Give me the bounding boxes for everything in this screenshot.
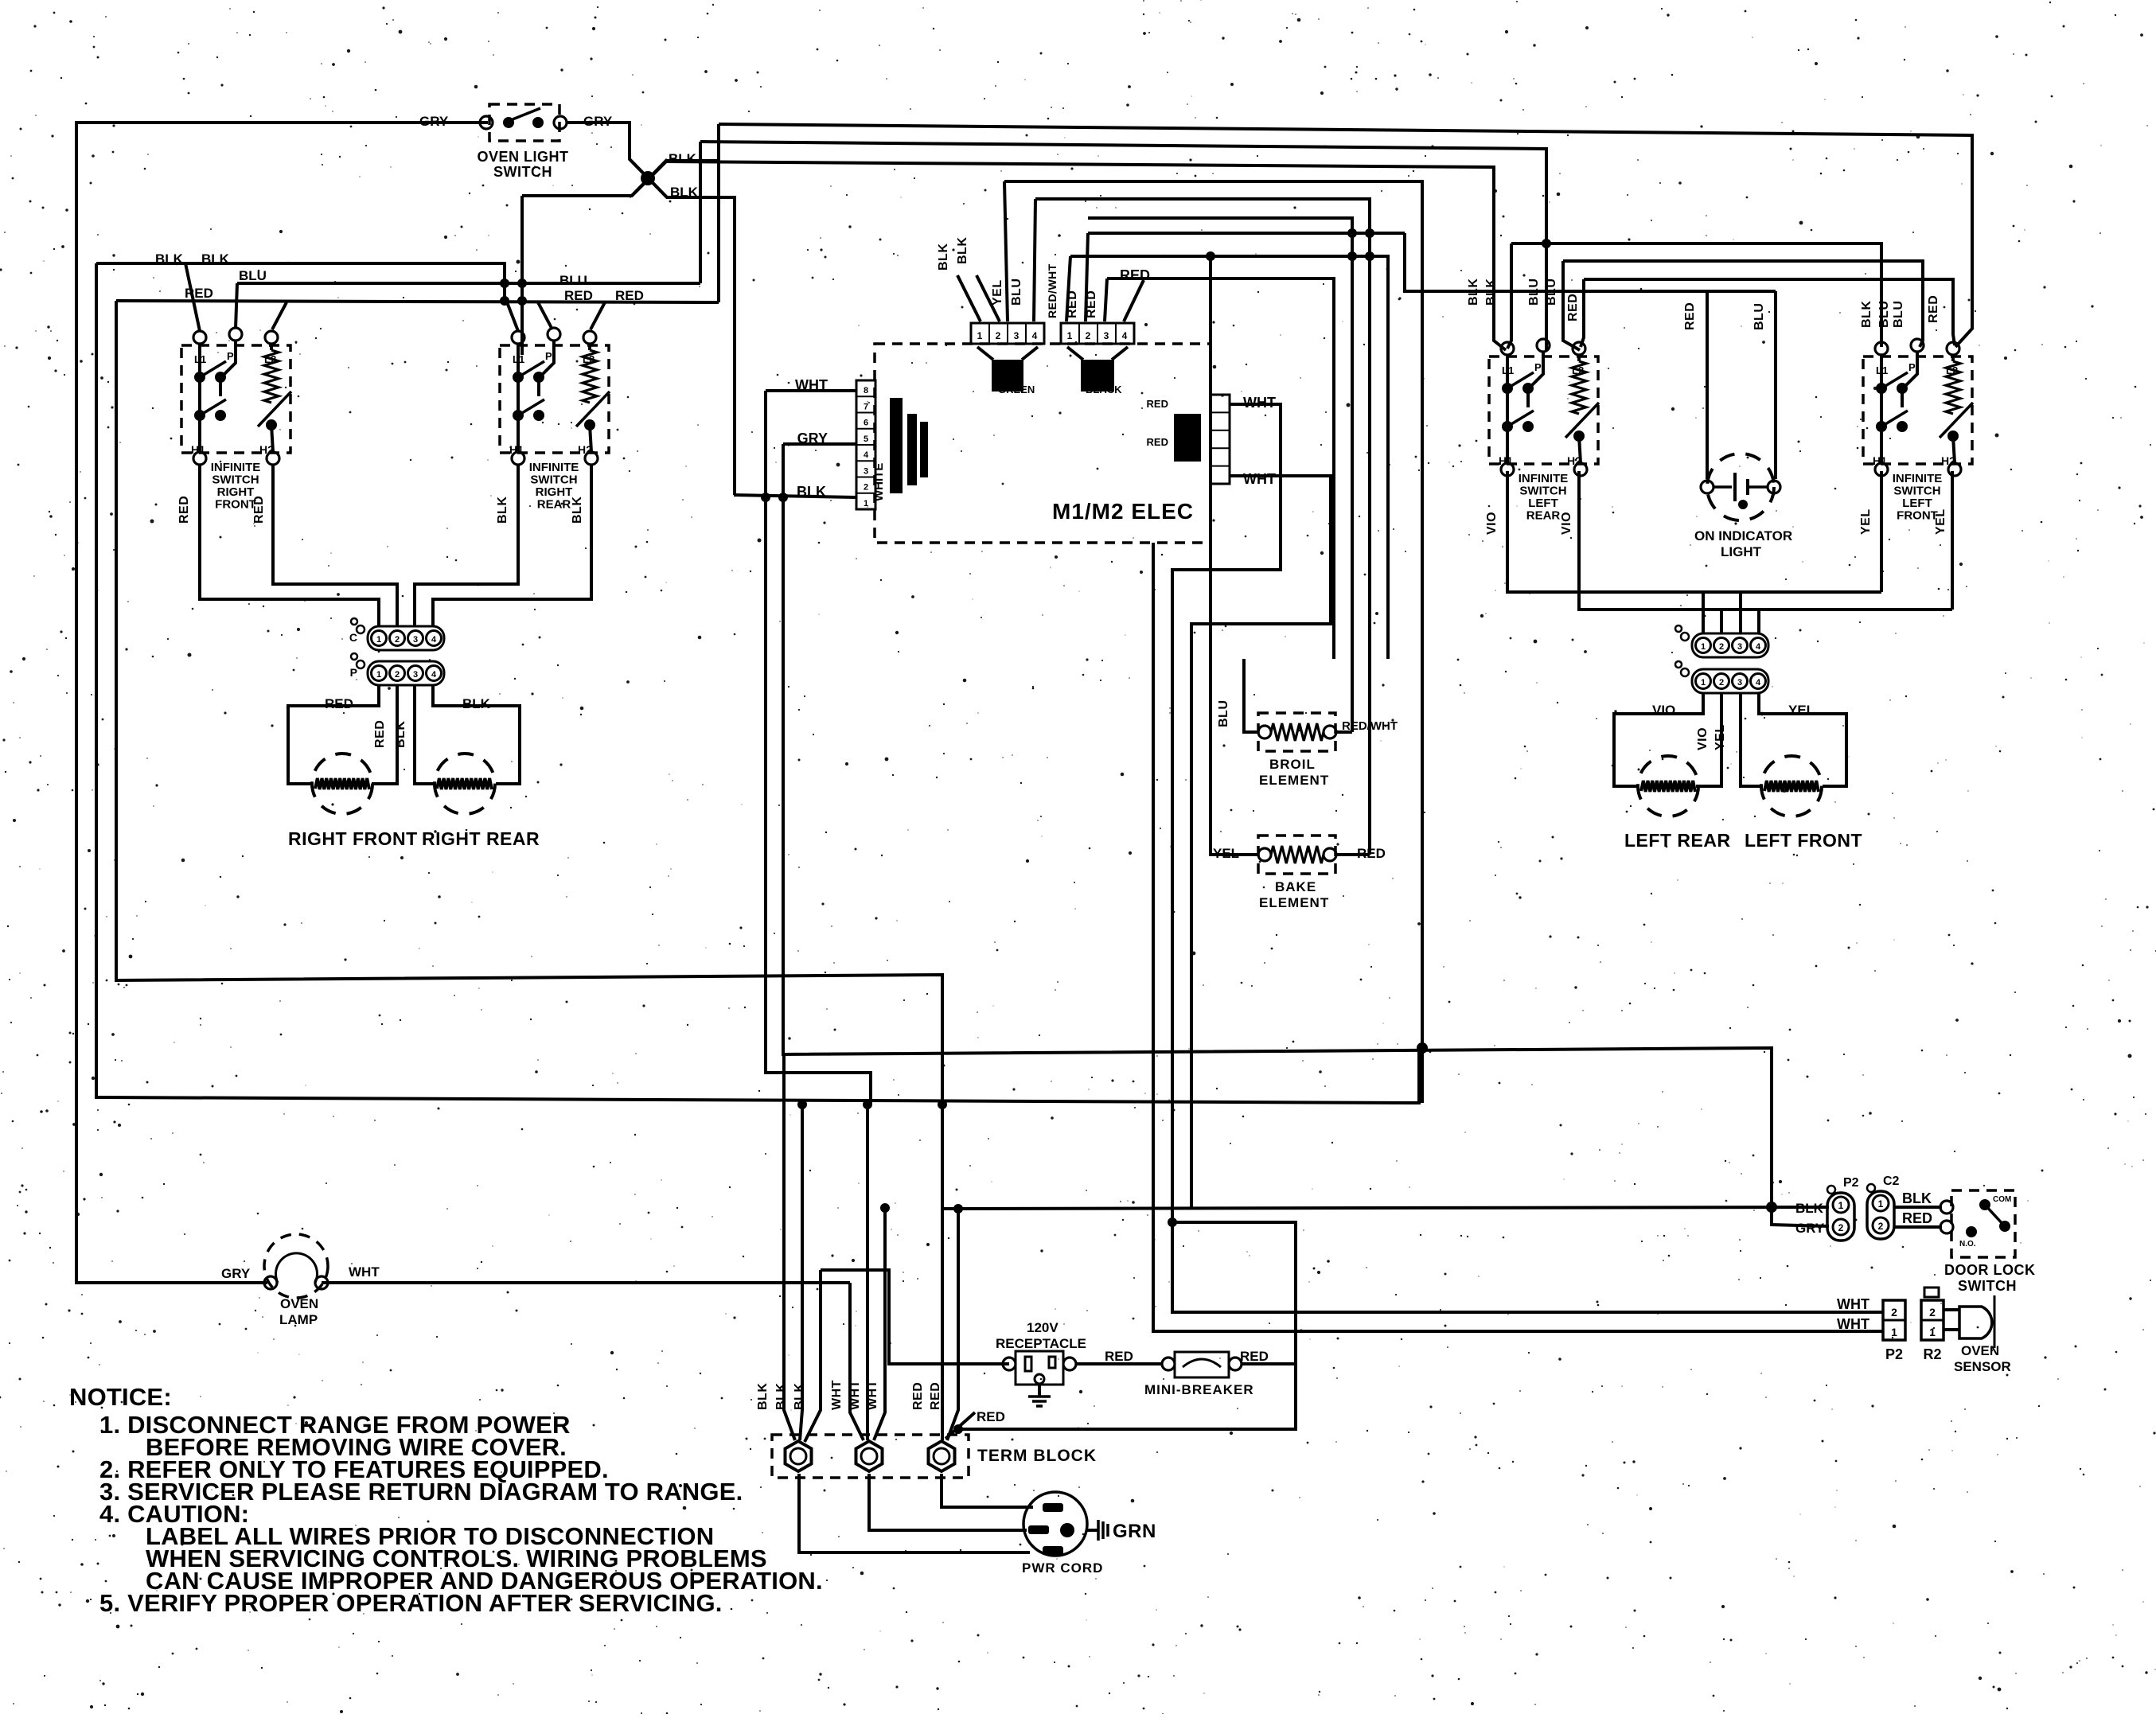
svg-text:N.O.: N.O. (1959, 1240, 1976, 1249)
svg-text:BLK: BLK (496, 497, 509, 524)
svg-text:P: P (227, 350, 234, 362)
svg-text:YEL: YEL (1934, 508, 1947, 535)
svg-text:BLK: BLK (571, 497, 584, 524)
svg-text:FRONT: FRONT (1897, 509, 1938, 523)
svg-text:1: 1 (376, 670, 381, 680)
svg-text:1: 1 (1701, 642, 1706, 652)
svg-text:RED: RED (373, 720, 387, 748)
svg-text:P2: P2 (1843, 1176, 1859, 1190)
svg-text:RED: RED (911, 1382, 925, 1410)
svg-text:SWITCH: SWITCH (493, 164, 552, 180)
svg-text:ELEMENT: ELEMENT (1259, 895, 1329, 910)
svg-text:OVEN: OVEN (280, 1296, 318, 1311)
svg-text:RED: RED (1683, 302, 1697, 330)
svg-text:4: 4 (1122, 330, 1128, 341)
svg-text:INFINITE: INFINITE (529, 461, 579, 474)
svg-text:3: 3 (864, 466, 868, 476)
svg-text:GRY: GRY (221, 1266, 251, 1281)
svg-text:4: 4 (431, 670, 437, 680)
svg-text:RECEPTACLE: RECEPTACLE (996, 1336, 1086, 1351)
svg-text:WHT: WHT (830, 1380, 844, 1410)
svg-text:VIO: VIO (1485, 512, 1499, 535)
svg-text:3: 3 (1014, 330, 1020, 341)
svg-text:2: 2 (864, 483, 868, 493)
svg-text:TERM BLOCK: TERM BLOCK (977, 1447, 1097, 1465)
svg-text:RED: RED (1105, 1349, 1133, 1364)
svg-text:LEFT: LEFT (1528, 497, 1558, 510)
svg-text:4: 4 (864, 450, 869, 460)
svg-text:LIGHT: LIGHT (1721, 544, 1762, 559)
svg-text:BLK: BLK (1467, 279, 1480, 306)
svg-text:BAKE: BAKE (1275, 879, 1316, 894)
svg-text:RED: RED (615, 288, 644, 303)
svg-text:BLK: BLK (797, 484, 826, 500)
svg-text:BLU: BLU (1892, 301, 1905, 328)
svg-text:2: 2 (395, 635, 400, 645)
svg-text:SWITCH: SWITCH (530, 473, 577, 487)
svg-text:WHT: WHT (1837, 1316, 1869, 1332)
svg-text:BLU: BLU (239, 268, 267, 283)
svg-text:7: 7 (864, 402, 868, 411)
svg-text:2: 2 (1719, 642, 1724, 652)
svg-text:2: 2 (1719, 678, 1724, 688)
svg-text:BLK: BLK (1795, 1201, 1824, 1216)
svg-text:5. VERIFY PROPER OPERATION AFT: 5. VERIFY PROPER OPERATION AFTER SERVICI… (99, 1589, 723, 1617)
svg-text:2: 2 (996, 330, 1001, 341)
svg-text:5: 5 (864, 434, 868, 444)
svg-text:1: 1 (1701, 678, 1706, 688)
svg-text:RED: RED (564, 288, 593, 303)
svg-text:4: 4 (431, 635, 437, 645)
svg-text:LEFT: LEFT (1902, 497, 1932, 510)
svg-text:BROIL: BROIL (1269, 757, 1316, 772)
svg-text:RED: RED (1240, 1349, 1269, 1364)
svg-text:WHT: WHT (349, 1264, 380, 1280)
svg-text:RIGHT: RIGHT (536, 485, 573, 499)
svg-text:GRY: GRY (419, 114, 449, 129)
svg-text:YEL: YEL (991, 279, 1004, 306)
svg-text:RED: RED (185, 286, 213, 301)
svg-text:3: 3 (1737, 642, 1742, 652)
svg-text:GREEN: GREEN (998, 384, 1035, 395)
svg-text:LEFT FRONT: LEFT FRONT (1745, 830, 1862, 851)
svg-text:P: P (545, 350, 552, 362)
svg-text:LEFT REAR: LEFT REAR (1624, 830, 1731, 851)
svg-text:WHT: WHT (795, 377, 828, 393)
svg-text:BLK: BLK (1902, 1190, 1932, 1206)
svg-text:YEL: YEL (1859, 508, 1873, 535)
svg-text:PWR CORD: PWR CORD (1022, 1560, 1103, 1576)
svg-text:SENSOR: SENSOR (1954, 1359, 2011, 1374)
svg-text:RED: RED (1902, 1210, 1932, 1226)
svg-text:RED: RED (1147, 436, 1168, 448)
svg-text:OVEN: OVEN (1961, 1343, 1999, 1358)
svg-text:BLK: BLK (1484, 279, 1498, 306)
svg-text:BLU: BLU (559, 273, 587, 288)
svg-text:SWITCH: SWITCH (212, 473, 259, 487)
svg-text:3: 3 (413, 635, 418, 645)
svg-text:1: 1 (1067, 330, 1073, 341)
svg-text:RIGHT: RIGHT (217, 485, 255, 499)
svg-text:GRY: GRY (1795, 1221, 1825, 1236)
svg-text:1: 1 (376, 635, 381, 645)
svg-text:BLU: BLU (1545, 279, 1558, 306)
svg-text:3: 3 (1104, 330, 1109, 341)
svg-text:REAR: REAR (1526, 509, 1561, 523)
svg-text:P: P (350, 666, 357, 679)
svg-text:BLK: BLK (670, 185, 699, 200)
svg-text:RIGHT FRONT: RIGHT FRONT (288, 828, 418, 849)
svg-text:P: P (1908, 361, 1916, 373)
svg-text:BLK: BLK (793, 1383, 806, 1410)
svg-text:VIO: VIO (1652, 703, 1675, 718)
svg-text:BLK: BLK (669, 151, 697, 166)
svg-text:RED: RED (325, 696, 353, 711)
svg-text:2: 2 (1929, 1306, 1936, 1319)
svg-text:4: 4 (1756, 642, 1761, 652)
svg-text:WHT: WHT (1243, 471, 1276, 487)
svg-text:P2: P2 (1885, 1346, 1903, 1362)
svg-text:BLU: BLU (1010, 279, 1023, 306)
svg-text:BLU: BLU (1877, 301, 1891, 328)
svg-text:RED/WHT: RED/WHT (1342, 719, 1398, 733)
svg-text:RED: RED (1927, 295, 1940, 323)
svg-text:1: 1 (1838, 1200, 1844, 1211)
svg-text:YEL: YEL (1788, 703, 1815, 718)
svg-text:C2: C2 (1883, 1175, 1900, 1188)
svg-text:2: 2 (1891, 1306, 1897, 1319)
svg-text:R2: R2 (1923, 1346, 1941, 1362)
svg-text:YEL: YEL (1713, 724, 1727, 750)
svg-text:8: 8 (864, 386, 868, 395)
svg-text:2: 2 (1878, 1221, 1884, 1232)
svg-text:RED: RED (1357, 846, 1386, 861)
svg-text:INFINITE: INFINITE (211, 461, 261, 474)
svg-text:RED: RED (1566, 294, 1580, 321)
svg-text:ON INDICATOR: ON INDICATOR (1694, 528, 1792, 543)
svg-text:RED: RED (252, 496, 266, 524)
svg-text:RED: RED (177, 496, 191, 524)
svg-text:DOOR LOCK: DOOR LOCK (1944, 1262, 2036, 1278)
svg-text:2: 2 (395, 670, 400, 680)
svg-text:RED/WHT: RED/WHT (1046, 263, 1059, 318)
svg-text:2: 2 (1838, 1222, 1844, 1233)
svg-text:BLK: BLK (201, 251, 230, 267)
svg-text:BLK: BLK (1860, 301, 1873, 328)
svg-text:SWITCH: SWITCH (1519, 485, 1566, 498)
svg-text:3: 3 (1737, 678, 1742, 688)
svg-text:BLU: BLU (1527, 279, 1541, 306)
svg-text:FRONT: FRONT (215, 498, 256, 512)
svg-text:RED: RED (1120, 267, 1150, 283)
svg-text:GRN: GRN (1113, 1521, 1156, 1542)
svg-text:INFINITE: INFINITE (1893, 472, 1943, 485)
svg-text:RIGHT REAR: RIGHT REAR (422, 828, 540, 849)
svg-text:YEL: YEL (1213, 846, 1239, 861)
svg-text:BLK: BLK (937, 243, 950, 271)
svg-text:VIO: VIO (1696, 727, 1710, 750)
svg-text:GRY: GRY (797, 430, 828, 446)
svg-text:1: 1 (1878, 1198, 1884, 1210)
svg-text:WHT: WHT (848, 1380, 862, 1410)
svg-text:1: 1 (1891, 1326, 1897, 1338)
svg-text:RED: RED (1085, 290, 1098, 318)
svg-text:VIO: VIO (1560, 512, 1573, 535)
svg-text:BLU: BLU (1752, 303, 1766, 330)
svg-text:BLK: BLK (774, 1383, 788, 1410)
svg-text:WHT: WHT (1837, 1296, 1869, 1312)
svg-text:SWITCH: SWITCH (1958, 1278, 2017, 1294)
svg-text:OVEN LIGHT: OVEN LIGHT (477, 149, 568, 165)
svg-text:C: C (349, 631, 357, 644)
svg-text:BLK: BLK (956, 237, 969, 264)
svg-text:BLU: BLU (1217, 700, 1230, 727)
svg-text:COM: COM (1993, 1195, 2011, 1204)
svg-text:4: 4 (1032, 330, 1038, 341)
svg-text:RED: RED (977, 1409, 1005, 1424)
svg-text:WHITE: WHITE (872, 463, 886, 501)
svg-text:REAR: REAR (537, 498, 571, 512)
svg-text:INFINITE: INFINITE (1519, 472, 1569, 485)
svg-text:RED: RED (1066, 290, 1079, 318)
svg-text:6: 6 (864, 419, 868, 428)
svg-text:1: 1 (977, 330, 983, 341)
svg-text:4: 4 (1756, 678, 1761, 688)
svg-text:MINI-BREAKER: MINI-BREAKER (1144, 1382, 1254, 1397)
svg-text:120V: 120V (1027, 1320, 1059, 1335)
svg-text:RED: RED (1147, 398, 1168, 410)
svg-text:SWITCH: SWITCH (1893, 485, 1940, 498)
svg-text:WHT: WHT (866, 1380, 879, 1410)
svg-text:NOTICE:: NOTICE: (69, 1383, 172, 1411)
svg-text:BLK: BLK (756, 1383, 770, 1410)
svg-text:BLK: BLK (462, 696, 491, 711)
svg-text:BLACK: BLACK (1086, 384, 1122, 395)
svg-text:RED: RED (929, 1382, 942, 1410)
svg-text:2: 2 (1086, 330, 1091, 341)
svg-text:3: 3 (413, 670, 418, 680)
svg-text:BLK: BLK (394, 721, 407, 748)
svg-text:LAMP: LAMP (279, 1312, 318, 1327)
svg-text:BLK: BLK (155, 251, 184, 267)
svg-text:M1/M2 ELEC: M1/M2 ELEC (1052, 499, 1194, 524)
svg-text:ELEMENT: ELEMENT (1259, 773, 1329, 788)
svg-text:P: P (1534, 361, 1542, 373)
